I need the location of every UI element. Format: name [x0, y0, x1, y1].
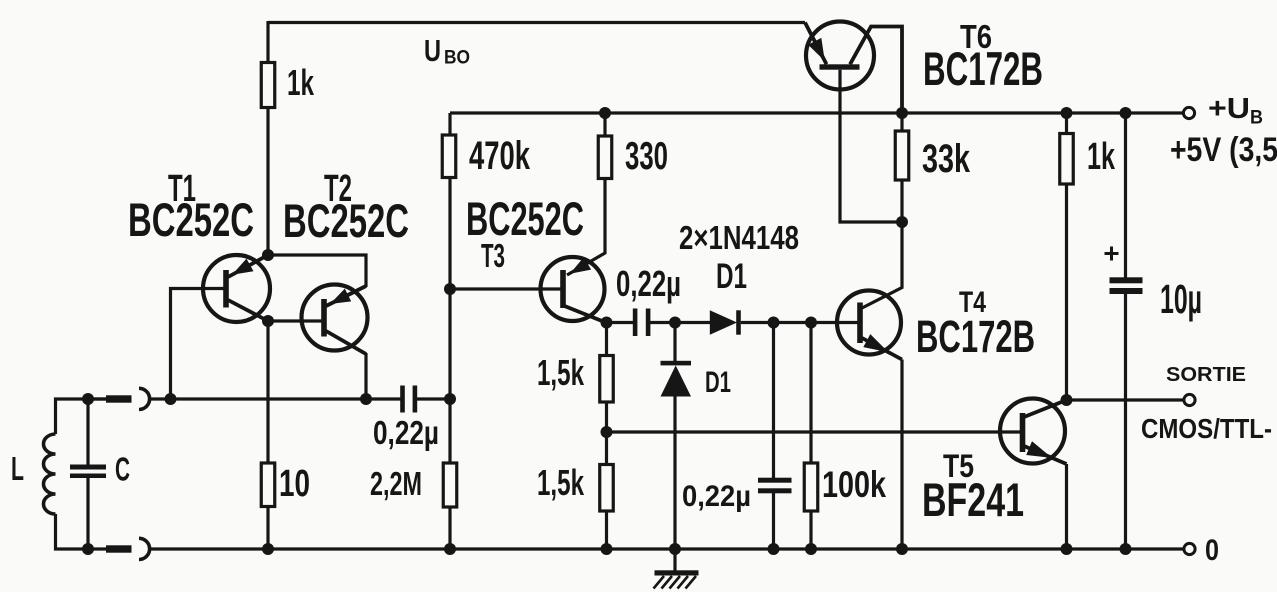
svg-text:L: L: [11, 450, 24, 487]
inductor L coil: [44, 434, 56, 514]
resistor R 470k: [442, 135, 456, 178]
wire cap2 drop: [772, 323, 775, 480]
diode D1 (series) cathode bar: [736, 310, 741, 334]
node rail x450: [444, 543, 456, 555]
wire tank top stub: [56, 399, 108, 434]
wire T1-T2 emitters: [268, 255, 366, 287]
terminal +UB: [1183, 107, 1194, 118]
diode D1 (shunt) triangle: [661, 365, 692, 396]
wire 330 to T3 emitter: [567, 179, 605, 276]
svg-text:U: U: [424, 33, 441, 68]
svg-text:0,22µ: 0,22µ: [373, 414, 439, 451]
wire T5 base line: [607, 430, 1021, 433]
transistor T4 circle: [837, 291, 901, 355]
wire D1 shunt to ground rail: [673, 396, 676, 549]
svg-text:1k: 1k: [287, 62, 315, 103]
svg-text:2,2M: 2,2M: [370, 465, 422, 502]
node cap2 tap: [768, 317, 780, 329]
wire 330 top lead: [603, 113, 606, 137]
wire +UB rail: [450, 111, 1184, 114]
node 10u top: [1120, 107, 1132, 119]
svg-text:1,5k: 1,5k: [537, 462, 585, 503]
svg-text:470k: 470k: [469, 134, 531, 178]
connector jack (bottom): [139, 538, 150, 559]
svg-text:C: C: [115, 451, 130, 488]
node rail x675: [669, 543, 681, 555]
svg-text:10µ: 10µ: [1160, 276, 1202, 322]
transistor T3 collector lead: [565, 306, 608, 323]
wire 10u to rail: [1124, 294, 1127, 549]
svg-text:0,22µ: 0,22µ: [616, 263, 681, 304]
wire 1.5k to rail: [605, 511, 608, 549]
svg-text:0,22µ: 0,22µ: [682, 480, 751, 513]
node T1 collector / T2 base: [262, 315, 274, 327]
wire C bottom: [86, 478, 89, 549]
wire 33k top lead: [900, 113, 903, 132]
svg-text:SORTIE: SORTIE: [1166, 364, 1246, 386]
node 100k tap: [805, 317, 817, 329]
wire T1 base riser: [171, 289, 225, 400]
svg-text:33k: 33k: [922, 137, 971, 181]
transistor T1 base bar: [223, 270, 229, 308]
wire U_BO top: [268, 21, 805, 24]
resistor R 1k (left): [261, 63, 275, 108]
capacitor 10u bottom plate: [1110, 288, 1143, 294]
wire sortie: [1067, 398, 1185, 401]
capacitor C bottom plate: [70, 474, 106, 479]
wire capacitor C riser: [86, 399, 89, 466]
svg-text:BC172B: BC172B: [916, 311, 1035, 362]
node T6 base / T4 collector: [896, 216, 908, 228]
transistor T5 collector lead: [1024, 400, 1067, 417]
wire T4 collector riser: [862, 222, 902, 308]
wire D1 to T4 base: [741, 321, 858, 324]
transistor T4 base bar: [857, 303, 863, 344]
node rail x811: [805, 543, 817, 555]
svg-text:1k: 1k: [1087, 136, 1116, 178]
transistor T1 circle: [203, 255, 270, 322]
node 33k top: [896, 107, 908, 119]
svg-text:100k: 100k: [822, 464, 886, 505]
wire 10 to rail: [266, 507, 269, 550]
capacitor 0.22u coupling right plate: [413, 386, 418, 413]
wire 100k drop: [809, 323, 812, 464]
resistor R 1.5k (lower): [600, 465, 614, 512]
svg-text:10: 10: [279, 463, 310, 505]
transistor T6 base drop: [840, 70, 902, 222]
transistor T1 emitter lead: [228, 255, 268, 277]
node T3 base node: [444, 283, 456, 295]
capacitor 0.22u (T3) right plate: [646, 309, 651, 337]
node T1 base tap: [165, 393, 177, 405]
wire 1k top lead: [266, 21, 269, 63]
svg-text:330: 330: [625, 135, 668, 178]
node rail x902: [896, 543, 908, 555]
wire 10u drop: [1124, 113, 1127, 279]
svg-text:2×1N4148: 2×1N4148: [679, 219, 799, 256]
svg-text:+U: +U: [1208, 93, 1250, 125]
node C top: [82, 393, 94, 405]
transistor T6 circle: [806, 22, 874, 90]
node rail x606: [601, 543, 613, 555]
capacitor 0.22u coupling left plate: [400, 386, 405, 413]
wire 2.2M top lead: [448, 399, 451, 464]
wire tank left bottom: [56, 514, 108, 549]
wire cap to 2.2M node: [417, 397, 450, 400]
wire T5 emitter drop: [1065, 464, 1068, 549]
svg-text:BO: BO: [444, 48, 470, 69]
svg-text:BC252C: BC252C: [128, 193, 254, 246]
capacitor C top plate: [70, 465, 106, 470]
resistor R 1.5k (upper): [600, 356, 614, 403]
svg-text:0: 0: [1205, 534, 1219, 567]
wire T4 emitter drop: [900, 360, 903, 550]
transistor T3 circle: [541, 257, 605, 321]
wire cap to D1: [650, 321, 710, 324]
svg-text:BC172B: BC172B: [923, 42, 1043, 95]
capacitor 0.22u (T3) left plate: [633, 309, 638, 337]
node rail x268: [262, 543, 274, 555]
capacitor 10u top plate: [1110, 277, 1143, 283]
node 2.2M tap: [444, 393, 456, 405]
wire T3 base: [450, 287, 562, 290]
node T1 emitter junction: [262, 249, 274, 261]
svg-text:BF241: BF241: [922, 473, 1024, 526]
wire T3 collector to cap: [607, 321, 635, 324]
ground hatching: [654, 576, 665, 589]
wire 1k to T1 emitter: [266, 108, 269, 256]
wire 470k top lead: [448, 113, 451, 136]
wire T1 collector drop: [266, 321, 269, 464]
svg-text:CMOS/TTL-: CMOS/TTL-: [1141, 413, 1272, 444]
label plus sign: [1105, 252, 1119, 255]
node D1 anode junction: [669, 317, 681, 329]
wire ground rail: [150, 547, 1184, 550]
wire 1k right top lead: [1065, 113, 1068, 134]
svg-text:BC252C: BC252C: [283, 194, 409, 247]
transistor T5 emitter lead: [1024, 446, 1067, 464]
wire cap2 to rail: [772, 493, 775, 549]
transistor T6 emitter lead: [805, 23, 827, 65]
transistor T2 circle: [302, 285, 368, 351]
capacitor 0.22u (vertical) top plate: [758, 478, 792, 483]
node divider tap: [601, 426, 613, 438]
node T5 collector / sortie: [1061, 394, 1073, 406]
svg-text:T3: T3: [481, 237, 505, 274]
wire 1.5k junction: [605, 402, 608, 465]
ground bar: [655, 570, 699, 575]
node 330 top: [599, 107, 611, 119]
wire 470k to T3 base node: [448, 178, 451, 291]
wire bias node drop: [448, 289, 451, 399]
terminal 0: [1184, 543, 1195, 554]
node T3 collector: [601, 317, 613, 329]
svg-text:B: B: [1250, 108, 1263, 129]
wire 1k to T5 collector: [1065, 184, 1068, 400]
resistor R 330: [598, 136, 612, 179]
svg-text:+5V (3,5: +5V (3,5: [1170, 131, 1277, 169]
wire T2 base: [268, 319, 322, 322]
wire 33k to T6 base node: [900, 180, 903, 222]
transistor T6 collector lead: [850, 27, 902, 114]
node T2 collector junction: [360, 393, 372, 405]
connector plug (bottom): [106, 545, 132, 552]
transistor T3 emitter arrow: [570, 257, 591, 274]
resistor R 10: [261, 463, 275, 507]
resistor R 1k (right): [1060, 134, 1074, 185]
wire 2.2M to rail: [448, 507, 451, 549]
transistor T4 emitter lead: [862, 338, 902, 360]
resistor R 33k: [895, 131, 909, 180]
ground stub: [673, 549, 676, 572]
node 1k right top: [1061, 107, 1073, 119]
wire 100k to rail: [809, 511, 812, 549]
wire D1 shunt top lead: [673, 323, 676, 363]
transistor T2 base bar: [321, 299, 327, 337]
resistor R 100k: [804, 463, 818, 511]
terminal SORTIE: [1184, 394, 1195, 405]
node rail x773: [768, 543, 780, 555]
wire T3C to 1.5k: [605, 323, 608, 357]
connector jack (top): [139, 388, 150, 409]
transistor T6 base bar: [820, 64, 860, 69]
svg-text:D1: D1: [705, 366, 731, 399]
node rail x1066: [1061, 543, 1073, 555]
svg-text:1,5k: 1,5k: [537, 352, 585, 393]
node rail x1125: [1120, 543, 1132, 555]
transistor T5 circle: [1000, 399, 1065, 464]
diode D1 (shunt) cathode bar: [661, 361, 692, 366]
svg-text:D1: D1: [716, 257, 747, 296]
connector plug (top): [88, 397, 107, 400]
transistor T2 emitter lead: [326, 286, 366, 306]
wire antenna line: [150, 397, 401, 400]
transistor T1 collector lead: [228, 300, 268, 321]
resistor R 2.2M: [443, 463, 457, 507]
transistor T2 collector lead: [326, 331, 366, 354]
transistor T5 base bar: [1020, 413, 1026, 452]
node C bottom: [82, 543, 94, 555]
diode D1 (series) triangle: [710, 310, 737, 334]
transistor T3 base bar: [560, 270, 566, 308]
wire T2 collector drop: [364, 353, 367, 399]
capacitor 0.22u (vertical) bottom plate: [758, 488, 792, 493]
